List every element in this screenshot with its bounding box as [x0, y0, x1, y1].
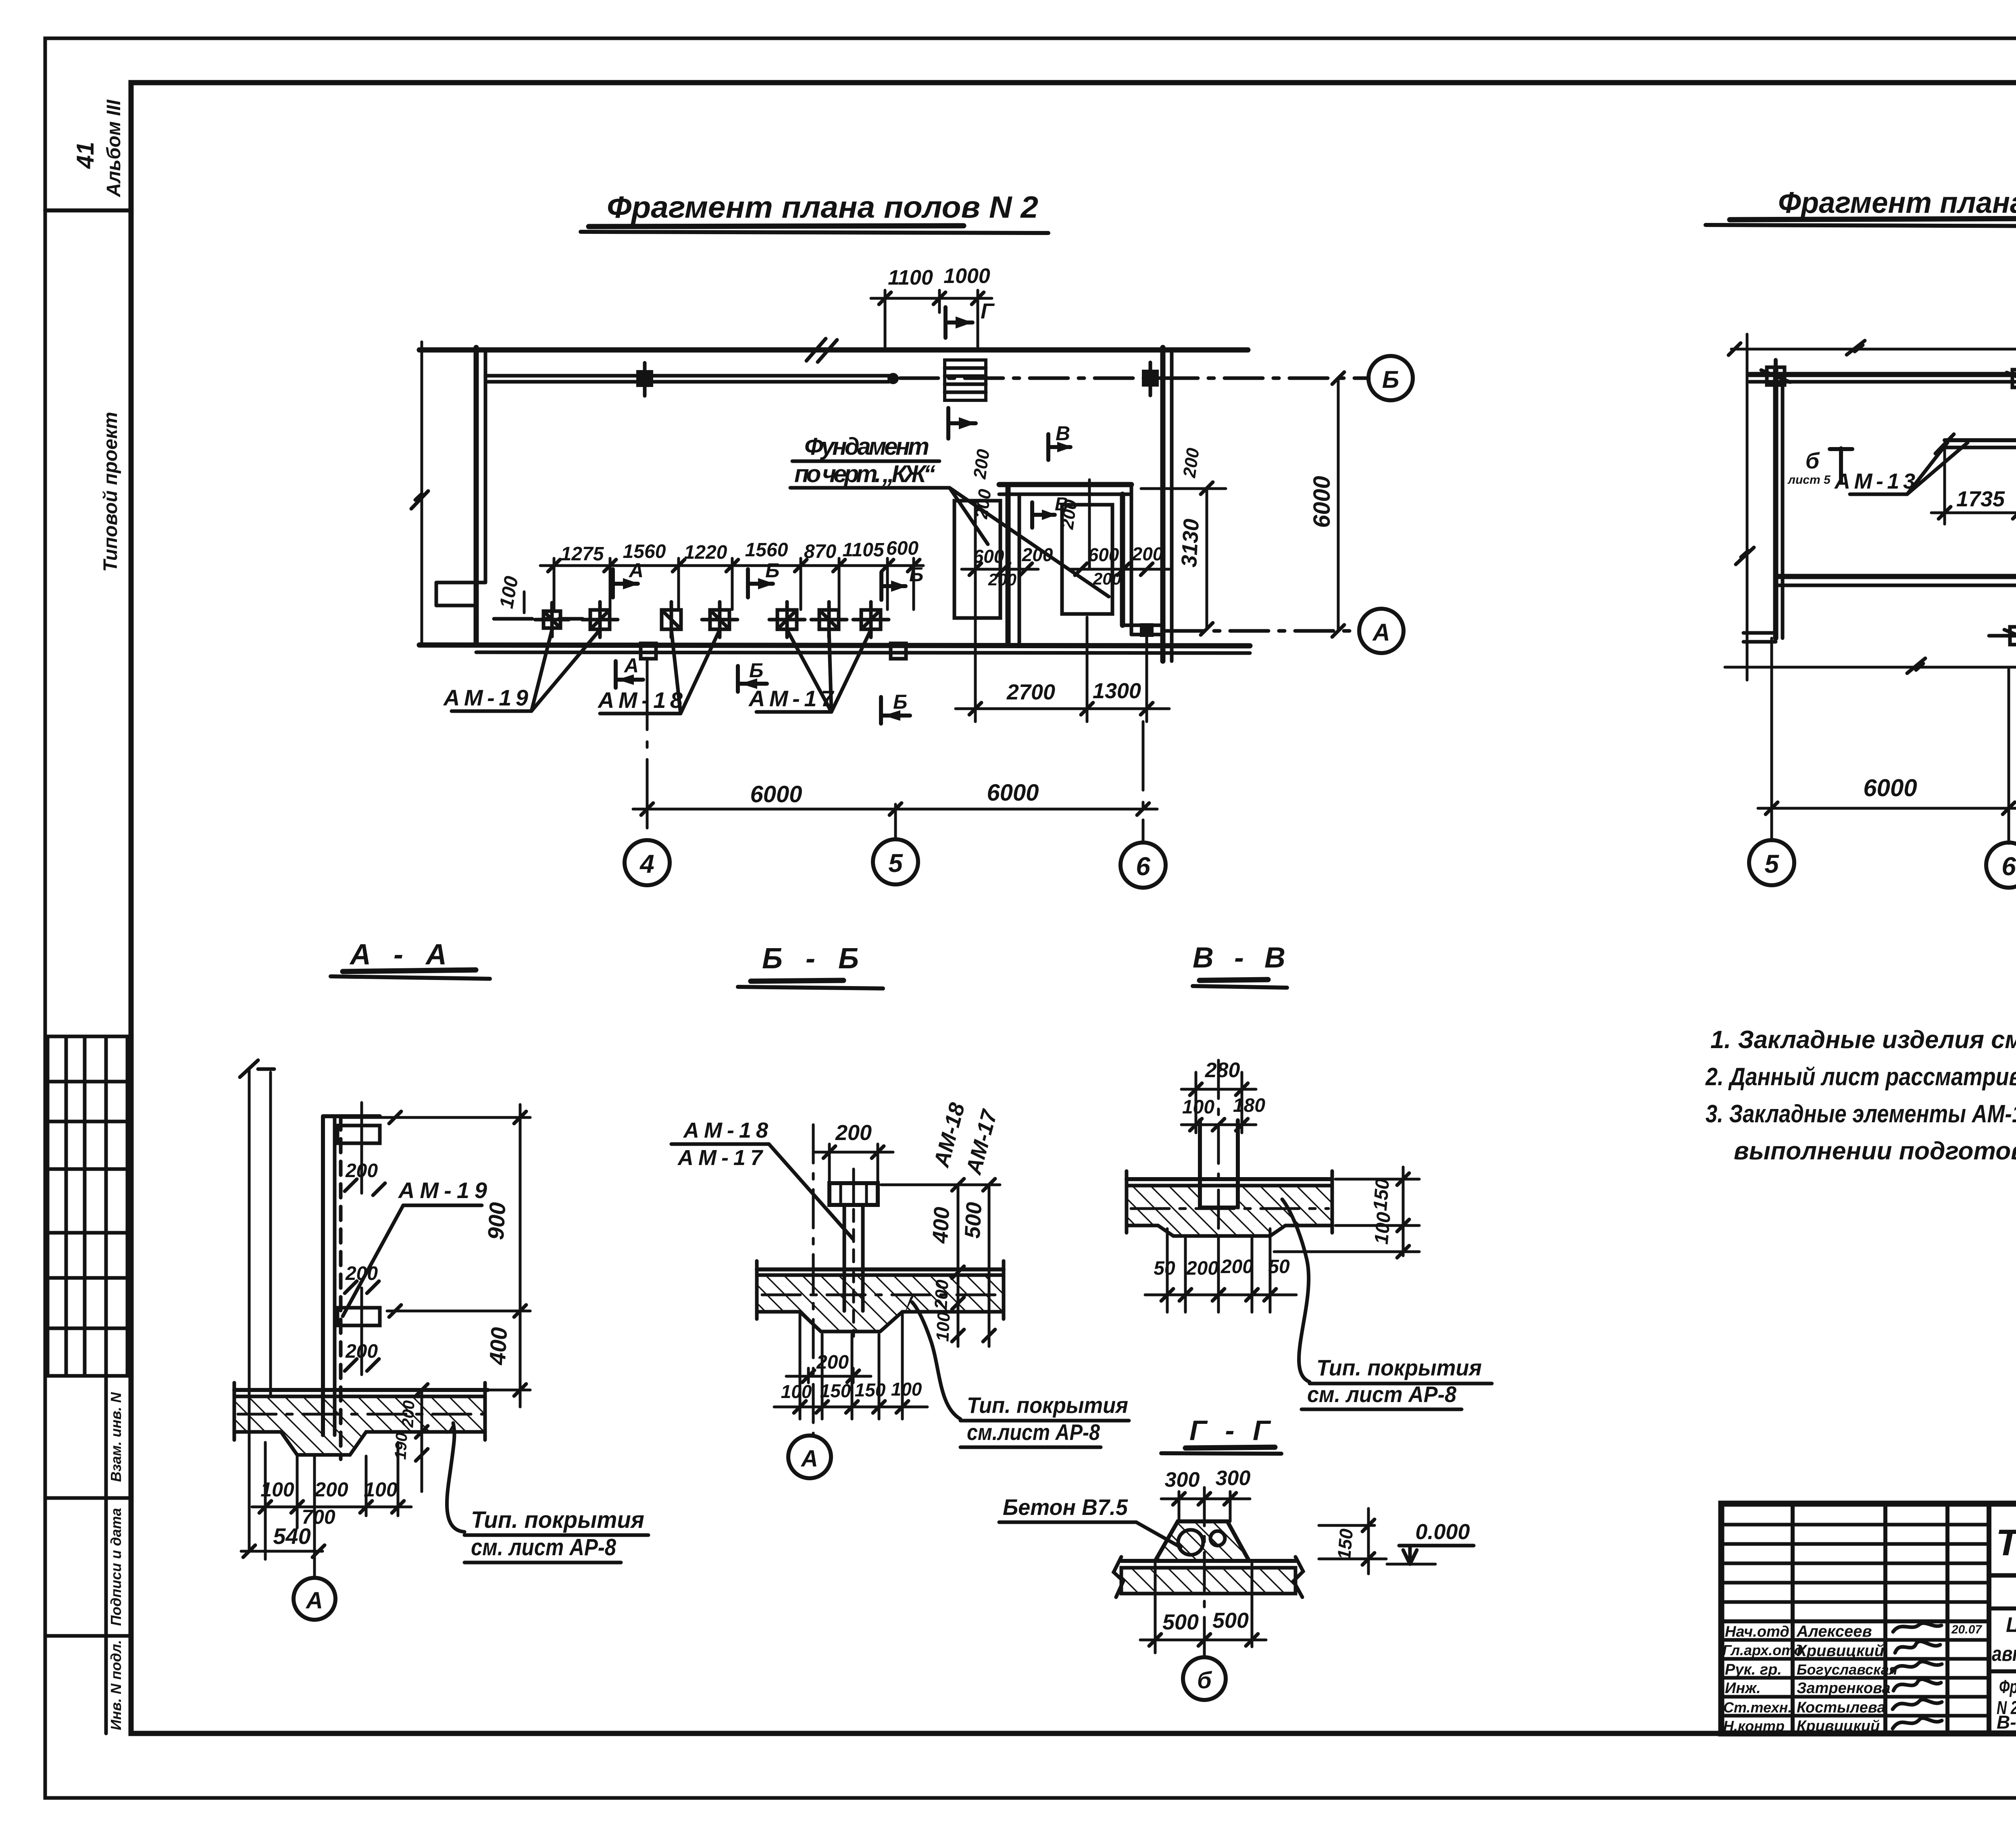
- svg-text:1. Закладные изделия см.лис: 1. Закладные изделия см.лист 15.: [1710, 1026, 2016, 1054]
- bottom dim line 6000 6000: [633, 803, 1157, 815]
- leader squiggle VV: [1282, 1199, 1310, 1382]
- svg-text:6: 6: [1136, 852, 1150, 881]
- top ext dim line: [1729, 341, 2016, 355]
- svg-text:0.000: 0.000: [1415, 1520, 1470, 1544]
- section flag B bottom2: [881, 697, 910, 724]
- wall dashed axis: [339, 1116, 343, 1459]
- svg-text:100: 100: [891, 1379, 922, 1400]
- svg-text:150: 150: [1370, 1178, 1394, 1212]
- right wall: [1160, 347, 1166, 661]
- slab hatch GG: [1121, 1568, 1295, 1594]
- slab hatch VV: [1127, 1186, 1332, 1236]
- dim line 2700-1300: [956, 617, 1169, 722]
- section BB underline: [738, 987, 883, 988]
- plan N2 title underline: [581, 232, 1048, 233]
- svg-text:540: 540: [273, 1523, 310, 1549]
- svg-text:200: 200: [345, 1341, 378, 1362]
- NOTES: [1705, 1026, 2016, 1165]
- svg-text:200: 200: [1093, 569, 1121, 588]
- dim line 1735-1530: [1931, 448, 2016, 524]
- inner wall left tick: [1935, 434, 1954, 454]
- svg-text:АМ-18: АМ-18: [929, 1100, 969, 1170]
- svg-text:4: 4: [639, 849, 654, 878]
- svg-text:300: 300: [1216, 1467, 1251, 1490]
- slab hatch: [757, 1275, 1004, 1332]
- svg-text:400: 400: [928, 1206, 954, 1244]
- svg-text:600: 600: [886, 538, 918, 559]
- svg-text:А: А: [800, 1446, 818, 1472]
- svg-text:600: 600: [973, 546, 1004, 567]
- section AA underline: [331, 976, 490, 979]
- slab break left: [1114, 1557, 1123, 1597]
- svg-text:200: 200: [1186, 1258, 1218, 1279]
- SECTION-BB: [671, 943, 1129, 1478]
- svg-text:6000: 6000: [750, 781, 802, 807]
- svg-text:200: 200: [399, 1400, 418, 1428]
- svg-text:1100: 1100: [888, 266, 933, 289]
- column marker top-right: [2007, 362, 2016, 395]
- svg-text:Б: Б: [749, 659, 763, 682]
- svg-text:АМ-19: АМ-19: [443, 685, 528, 710]
- curb trapezoid: [1155, 1521, 1249, 1561]
- svg-text:6: 6: [2001, 852, 2016, 881]
- center axis VV: [1217, 1060, 1220, 1252]
- svg-text:А - А: А - А: [349, 938, 447, 971]
- pipe small: [1210, 1531, 1225, 1546]
- grid circle B right: [1368, 356, 1413, 400]
- leader squiggle BB: [912, 1302, 960, 1419]
- column on grid B: [1142, 370, 1159, 387]
- svg-text:200: 200: [970, 448, 993, 481]
- svg-text:Цех по ремонту: Цех по ремонту: [2006, 1613, 2016, 1637]
- svg-text:Ст.техн.: Ст.техн.: [1723, 1699, 1792, 1716]
- svg-text:2. Данный лист рассматривать: 2. Данный лист рассматривать совместно с…: [1705, 1063, 2016, 1091]
- svg-text:Фрагменты планов полов: Фрагменты планов полов: [1999, 1676, 2016, 1697]
- svg-text:Альбом III: Альбом III: [103, 99, 125, 198]
- svg-text:В-В ; Г-Г .: В-В ; Г-Г .: [1997, 1712, 2016, 1733]
- svg-text:100: 100: [1371, 1211, 1395, 1245]
- anchors dim line: [540, 558, 923, 610]
- grid 5 line: [1770, 638, 1773, 841]
- small dim 100 line: [523, 592, 526, 613]
- svg-text:Г: Г: [981, 299, 995, 323]
- section VV underline: [1193, 986, 1287, 988]
- top wall: [1749, 372, 2016, 377]
- svg-text:500: 500: [1162, 1610, 1199, 1634]
- svg-text:см. лист АР-8: см. лист АР-8: [1307, 1382, 1457, 1407]
- left step stub: [1743, 631, 1776, 635]
- svg-text:Б: Б: [1382, 366, 1399, 393]
- svg-text:выполнении подготовки под: выполнении подготовки под полы.: [1734, 1137, 2016, 1165]
- plan N3 title underline: [1706, 225, 2016, 227]
- right dim vert: [343, 1105, 530, 1407]
- svg-text:Рук. гр.: Рук. гр.: [1725, 1661, 1782, 1678]
- grid B dashdot: [1989, 634, 2016, 638]
- leader arrow in slab: [904, 1293, 915, 1315]
- section flag G bottom: [948, 408, 976, 439]
- svg-text:100: 100: [364, 1478, 398, 1501]
- SECTION-GG: [999, 1415, 1474, 1700]
- pipe big: [1178, 1530, 1203, 1555]
- column ext lines: [1196, 1072, 1242, 1133]
- section flag G top: [946, 307, 973, 338]
- svg-text:50: 50: [1154, 1258, 1175, 1279]
- signature rows: [1721, 1640, 1989, 1716]
- svg-text:б: б: [1197, 1667, 1212, 1694]
- svg-text:Кривицкий: Кривицкий: [1797, 1718, 1880, 1735]
- section flag A top: [613, 569, 639, 597]
- svg-text:2700: 2700: [1006, 680, 1055, 704]
- column marker top-left: [1761, 360, 1790, 392]
- column: [1198, 1120, 1202, 1207]
- slab edge bars: [755, 1261, 759, 1319]
- svg-text:1105: 1105: [842, 539, 885, 561]
- section flag B bottom1: [738, 666, 767, 692]
- floor wall bottom: [419, 645, 1250, 646]
- grid line B dashdot: [900, 377, 1369, 380]
- vert dim 3130: [1141, 482, 1226, 635]
- grid 4 line: [646, 661, 649, 841]
- svg-text:150: 150: [855, 1379, 886, 1400]
- svg-text:5: 5: [888, 849, 903, 878]
- svg-text:Фрагмент плана полов N 3: Фрагмент плана полов N 3: [1778, 186, 2016, 219]
- tall ext lines: [248, 1069, 251, 1550]
- svg-text:400: 400: [485, 1327, 512, 1366]
- svg-text:280: 280: [1205, 1059, 1240, 1082]
- svg-text:41: 41: [72, 142, 99, 169]
- circle A: [313, 1455, 316, 1577]
- svg-text:Фундамент: Фундамент: [804, 433, 929, 460]
- slab edge bars: [233, 1383, 236, 1440]
- svg-text:Взам. инв. N: Взам. инв. N: [108, 1392, 124, 1482]
- svg-text:200: 200: [835, 1121, 872, 1145]
- svg-text:1560: 1560: [745, 539, 788, 561]
- svg-text:Б - Б: Б - Б: [762, 943, 859, 975]
- svg-text:ТП 405-7- 4.86: ТП 405-7- 4.86: [1996, 1522, 2016, 1563]
- left ext vert: [1746, 334, 1749, 680]
- level mark: [1319, 1508, 1386, 1574]
- section GG underline: [1185, 1447, 1275, 1448]
- svg-text:190: 190: [392, 1432, 410, 1460]
- svg-text:Тип. покрытия: Тип. покрытия: [471, 1507, 644, 1533]
- junction dot: [887, 373, 899, 384]
- anchor plate top: [337, 1126, 380, 1143]
- margin strips: [45, 1376, 131, 1733]
- slab hatch: [234, 1396, 485, 1455]
- section flag V in room: [1032, 502, 1056, 528]
- svg-text:150: 150: [1333, 1528, 1357, 1560]
- svg-text:100: 100: [1182, 1096, 1214, 1118]
- grid 5 line: [894, 804, 897, 840]
- level arrow: [1403, 1546, 1417, 1564]
- svg-text:200: 200: [1220, 1256, 1253, 1277]
- anchor plate bottom: [337, 1308, 380, 1325]
- svg-text:1300: 1300: [1093, 679, 1141, 703]
- svg-text:Н.контр: Н.контр: [1723, 1718, 1785, 1734]
- svg-text:АМ-17: АМ-17: [748, 686, 835, 711]
- center axis: [812, 1125, 815, 1435]
- center axis GG: [1203, 1488, 1206, 1658]
- top dim line: [871, 290, 992, 347]
- top wall break: [806, 339, 837, 362]
- bottom ext line: [1725, 658, 2016, 673]
- dim 600-200 lines: [962, 480, 1169, 722]
- anchor squares: [535, 602, 906, 659]
- slab edge bars VV: [1125, 1171, 1129, 1233]
- grid A dashdot left: [494, 617, 583, 621]
- svg-text:АМ-17: АМ-17: [677, 1146, 764, 1170]
- inner wall horizontal: [1945, 438, 2016, 442]
- svg-text:Фрагмент плана полов N 2: Фрагмент плана полов N 2: [607, 190, 1038, 225]
- section flag B top1: [748, 569, 775, 597]
- svg-text:Костылева: Костылева: [1797, 1699, 1885, 1716]
- leader squiggle: [447, 1423, 464, 1532]
- TITLEBLOCK: [1721, 1375, 2016, 1735]
- svg-text:АМ-18: АМ-18: [683, 1118, 768, 1142]
- slab top lines: [1127, 1177, 1332, 1181]
- svg-text:1275: 1275: [561, 543, 604, 565]
- room wall bottom piece: [1123, 624, 1163, 627]
- margin divider top: [45, 208, 131, 212]
- svg-text:Б: Б: [909, 563, 923, 586]
- svg-text:600: 600: [1088, 544, 1119, 565]
- top wall: [419, 347, 1248, 353]
- small dim vert line: [416, 1384, 428, 1492]
- svg-text:Кривицкий: Кривицкий: [1797, 1642, 1884, 1660]
- svg-text:Б: Б: [765, 559, 779, 582]
- svg-text:Подписи и дата: Подписи и дата: [108, 1508, 124, 1626]
- svg-text:20.07: 20.07: [1951, 1623, 1982, 1636]
- svg-text:3. Закладные элементы АМ-17,: 3. Закладные элементы АМ-17,18,19 устано…: [1706, 1100, 2016, 1128]
- svg-text:500: 500: [960, 1201, 987, 1239]
- slab lines GG: [1121, 1559, 1295, 1563]
- main stamp frame: [1721, 1504, 2016, 1733]
- room wall left: [1006, 485, 1011, 645]
- svg-text:870: 870: [804, 541, 836, 562]
- svg-text:А: А: [628, 559, 644, 582]
- vert dim 6000 right: [1332, 372, 1344, 637]
- svg-text:Б: Б: [893, 691, 907, 713]
- svg-text:по черт. „КЖ“: по черт. „КЖ“: [794, 460, 935, 487]
- svg-text:АМ-17: АМ-17: [961, 1106, 1002, 1178]
- svg-text:Г - Г: Г - Г: [1189, 1415, 1271, 1446]
- section flag B top2: [881, 572, 907, 600]
- slab axis dashdot VV: [1131, 1207, 1329, 1210]
- grid 6 line: [2008, 669, 2010, 843]
- svg-text:В - В: В - В: [1193, 942, 1285, 974]
- hatched duct rect: [945, 360, 986, 400]
- svg-text:Типовой проект: Типовой проект: [100, 412, 121, 572]
- left wall step: [436, 583, 485, 605]
- svg-text:А: А: [305, 1587, 323, 1614]
- bottom dim 6000: [1758, 802, 2016, 814]
- svg-text:1735: 1735: [1956, 487, 2005, 511]
- svg-text:3130: 3130: [1177, 518, 1204, 568]
- svg-text:6000: 6000: [987, 780, 1039, 806]
- svg-text:автомобильных шин: автомобильных шин: [1992, 1642, 2016, 1666]
- grid circle 4: [625, 840, 670, 885]
- svg-text:А: А: [623, 654, 639, 677]
- svg-text:АМ-19: АМ-19: [398, 1178, 487, 1203]
- svg-text:6000: 6000: [1863, 774, 1917, 801]
- svg-text:Нач.отд: Нач.отд: [1725, 1623, 1789, 1640]
- svg-text:Тип. покрытия: Тип. покрытия: [967, 1392, 1128, 1418]
- slab top lines: [757, 1267, 1004, 1271]
- fundament leaders: [950, 488, 988, 544]
- right dim verts: [881, 1179, 1000, 1346]
- stamp thin rows upper: [1721, 1525, 1989, 1621]
- svg-text:100: 100: [781, 1381, 812, 1402]
- SECTION-AA: [234, 938, 648, 1620]
- room wall right: [1120, 494, 1125, 625]
- lower wall: [1776, 574, 2016, 579]
- PLAN-N3: [1706, 186, 2016, 888]
- grid circle A right: [1359, 609, 1404, 653]
- svg-text:200: 200: [314, 1478, 348, 1501]
- right part rows: [1989, 1575, 2016, 1733]
- svg-text:900: 900: [483, 1202, 510, 1241]
- grid 6 line: [1142, 722, 1145, 843]
- svg-text:Богуславская: Богуславская: [1797, 1661, 1897, 1678]
- top break tick: [240, 1060, 274, 1077]
- grid circle 6: [1120, 843, 1166, 888]
- svg-text:200: 200: [1057, 498, 1081, 531]
- grid A dashdot right: [1165, 629, 1360, 633]
- svg-text:5: 5: [1764, 849, 1779, 878]
- svg-text:Тип. покрытия: Тип. покрытия: [1316, 1355, 1482, 1380]
- svg-text:б: б: [1806, 448, 1820, 473]
- svg-text:100: 100: [933, 1311, 954, 1342]
- section flag V top: [1048, 434, 1073, 460]
- right dims VV: [1274, 1167, 1419, 1258]
- bolt shaft: [843, 1205, 846, 1311]
- left ext break: [411, 491, 428, 509]
- svg-text:300: 300: [1165, 1468, 1200, 1492]
- room wall top: [999, 482, 1131, 487]
- svg-text:АМ-18: АМ-18: [597, 687, 683, 713]
- svg-text:Затренкова: Затренкова: [1797, 1680, 1891, 1697]
- marker b list5 left: [1830, 448, 1852, 482]
- left wall: [1773, 369, 1779, 638]
- svg-text:Бетон В7.5: Бетон В7.5: [1003, 1494, 1128, 1520]
- dims 500 500: [1140, 1563, 1266, 1653]
- svg-text:Инж.: Инж.: [1725, 1680, 1761, 1697]
- svg-text:Инв. N подл.: Инв. N подл.: [108, 1640, 124, 1730]
- svg-text:200: 200: [988, 570, 1016, 589]
- svg-text:6000: 6000: [1309, 476, 1335, 528]
- svg-text:200: 200: [1132, 543, 1163, 564]
- svg-text:лист 5: лист 5: [1787, 473, 1831, 487]
- wall bar: [321, 1116, 325, 1435]
- section flag A bottom: [616, 661, 643, 688]
- slab break right: [1293, 1557, 1303, 1597]
- circle A: [788, 1436, 831, 1478]
- margin stamp table: [48, 1036, 127, 1376]
- svg-text:200: 200: [1179, 447, 1203, 479]
- svg-text:АМ-13: АМ-13: [1834, 469, 1915, 493]
- column marker bottom: [2004, 620, 2016, 652]
- svg-text:100: 100: [496, 574, 523, 610]
- svg-text:1000: 1000: [943, 264, 990, 288]
- column on corridor: [636, 370, 653, 387]
- left wall: [474, 347, 479, 645]
- svg-text:200: 200: [345, 1160, 378, 1182]
- fundament rect 2: [1062, 505, 1112, 614]
- grid circle 6: [1986, 843, 2016, 888]
- svg-text:см. лист АР-8: см. лист АР-8: [471, 1534, 616, 1560]
- stamp verticals left part: [1793, 1504, 1989, 1733]
- SECTION-VV: [1127, 942, 1492, 1409]
- grid circle 5: [1749, 840, 1794, 885]
- PLAN-N2: [411, 190, 1413, 888]
- svg-text:В: В: [1056, 422, 1070, 445]
- left ext break: [1736, 547, 1754, 564]
- svg-text:180: 180: [1233, 1095, 1265, 1116]
- left ext line: [421, 342, 423, 645]
- svg-text:Гл.арх.отд: Гл.арх.отд: [1722, 1642, 1803, 1658]
- svg-text:см.лист АР-8: см.лист АР-8: [967, 1419, 1100, 1445]
- grid circle 5: [873, 839, 918, 884]
- svg-text:1220: 1220: [684, 542, 727, 563]
- svg-text:200: 200: [1022, 544, 1053, 565]
- slab top lines: [234, 1388, 488, 1392]
- fundament rect 1: [954, 501, 1000, 618]
- svg-text:500: 500: [1212, 1608, 1249, 1633]
- circle B GG: [1183, 1657, 1226, 1700]
- svg-text:Алексеев: Алексеев: [1796, 1623, 1872, 1640]
- svg-text:А: А: [1372, 619, 1390, 646]
- bolt cap: [829, 1183, 878, 1205]
- corridor wall: [485, 374, 889, 378]
